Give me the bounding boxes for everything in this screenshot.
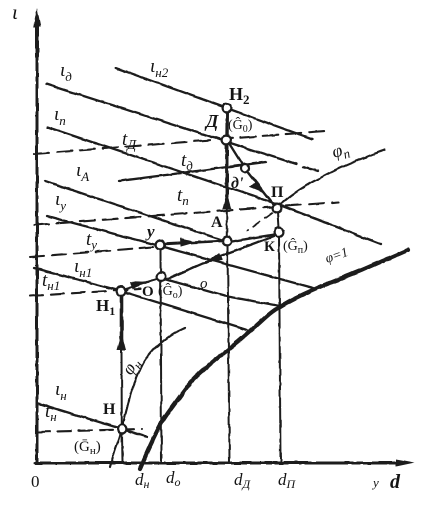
- isenthalp i_А (ending at А): [45, 181, 222, 240]
- svg-text:(Ḡн): (Ḡн): [74, 439, 101, 457]
- node О: [157, 273, 166, 282]
- isenthalp i_н (through Н): [37, 403, 147, 437]
- node П: [273, 204, 282, 213]
- isenthalp i_п (through П): [47, 127, 381, 244]
- svg-text:у: у: [145, 222, 155, 241]
- curve φ=1 (saturation, thick): [140, 250, 408, 469]
- svg-text:(Ĝ0): (Ĝ0): [228, 116, 253, 135]
- axis i arrowhead: [33, 8, 41, 27]
- process Д' to П with arrow: [248, 172, 273, 204]
- process У to А with arrow: [165, 241, 222, 244]
- axis d (horizontal): [35, 462, 403, 465]
- svg-text:у: у: [371, 475, 379, 490]
- node Н2: [223, 104, 232, 113]
- wire: dropline d_н (through H1 and H): [121, 350, 123, 425]
- arrowhead up on H-H1: [117, 334, 126, 350]
- node Н: [118, 425, 127, 434]
- process Н1 to О with arrow: [126, 280, 156, 289]
- axis d arrowhead: [396, 459, 415, 467]
- svg-text:д': д': [231, 175, 244, 192]
- wire: П to К vertical: [278, 212, 279, 228]
- process К to О with arrow: [166, 236, 274, 280]
- svg-text:d: d: [390, 471, 401, 493]
- curve φ_н (through Н): [110, 328, 185, 467]
- svg-text:0: 0: [31, 472, 40, 491]
- dashed stub П to А: [247, 213, 272, 232]
- svg-text:П: П: [271, 184, 284, 201]
- axis i (vertical): [36, 20, 39, 463]
- node Д: [222, 136, 231, 145]
- arrowhead up on А-Д: [222, 193, 231, 209]
- wire: process А to Д (thick upper part): [225, 144, 228, 197]
- line Д to Д': [230, 144, 243, 164]
- wire: dropline d_П (below К): [279, 236, 281, 462]
- isotherm t_Д dashed (through Д): [34, 131, 325, 154]
- isenthalp i_д (through Д): [46, 84, 296, 164]
- svg-text:О: О: [142, 284, 154, 300]
- svg-text:К: К: [264, 239, 275, 255]
- isenthalp through О (line о): [161, 278, 280, 306]
- svg-text:(Ĝо): (Ĝо): [158, 282, 183, 301]
- curve φ_п (through П): [277, 150, 384, 207]
- node К: [275, 228, 284, 237]
- wire: vertical H2 to Д: [225, 112, 229, 136]
- isenthalp i_у (through У): [47, 216, 313, 288]
- svg-text:Н: Н: [103, 401, 116, 418]
- svg-text:А: А: [211, 214, 223, 231]
- wire: dropline d_Д (below А): [228, 245, 230, 462]
- wire: process H to H1 (thick upper part): [120, 295, 124, 340]
- isenthalp i_н2 (through H2): [116, 68, 312, 139]
- isotherm t_д solid (through Д'): [119, 162, 266, 181]
- isenthalp i_н1 (through Н1): [34, 268, 247, 330]
- wire: dropline d_о (through O): [161, 250, 162, 462]
- isotherm t_п dashed (through П): [34, 202, 339, 225]
- node У: [156, 241, 165, 250]
- isotherm t_у dashed (to У): [30, 247, 153, 257]
- svg-text:ι: ι: [12, 0, 18, 24]
- isotherm t_н1 dashed (through Н1): [30, 289, 140, 296]
- svg-text:Д: Д: [204, 111, 219, 131]
- node А: [223, 237, 232, 246]
- node Д': [241, 164, 249, 172]
- process А to К: [232, 235, 274, 242]
- svg-text:о: о: [200, 276, 208, 292]
- isotherm t_н dashed (through Н): [37, 429, 142, 432]
- node Н1: [117, 287, 126, 296]
- svg-text:(Ĝп): (Ĝп): [283, 237, 308, 256]
